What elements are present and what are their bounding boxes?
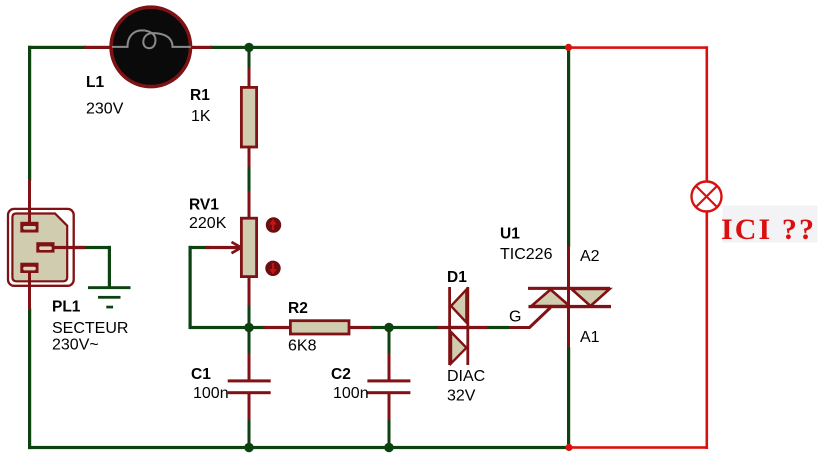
pot RV1 pin top [248,191,251,219]
diac D1 pin right [449,326,488,329]
svg-text:PL1: PL1 [52,299,81,316]
svg-text:G: G [509,309,521,326]
capacitor C1 pin bottom [248,392,251,420]
wire right vertical lower (from U1 A1) [567,347,570,449]
svg-text:100n: 100n [333,385,369,402]
wire wiper to node horizontal [189,326,250,329]
red lamp annotation [692,182,722,212]
node R2 right [384,323,393,332]
wire R2 right to node [371,326,390,329]
resistor R1 body [241,87,256,147]
wire RV1 bottom to node [248,305,251,328]
faint paste background behind ICI text [723,206,818,243]
resistor R1 pin top [248,68,251,87]
connector PL1 pin bottom [28,272,31,310]
svg-text:A2: A2 [580,248,600,265]
wire top node to R1 [248,47,251,69]
wire C1 to bottom rail [248,419,251,447]
resistor R1 pin bottom [248,147,251,167]
svg-text:L1: L1 [86,74,104,91]
connector PL1 slot 3 [20,263,38,273]
wire red annotation top [568,46,708,49]
wire node to C1 [248,327,251,355]
triac U1 pin A2 [567,246,570,307]
capacitor C2 pin bottom [388,392,391,420]
ground symbol [88,286,131,308]
connector PL1 body [8,209,74,286]
diac D1 [448,287,469,365]
node R1 top [244,43,253,52]
wire C2 to bottom rail [388,419,391,447]
lamp L1 pin right [190,46,212,49]
capacitor C2 pin top [388,353,391,381]
svg-text:U1: U1 [500,226,520,243]
svg-text:100n: 100n [193,385,229,402]
svg-text:R2: R2 [288,300,308,317]
svg-text:32V: 32V [447,388,476,405]
triac U1 gate pin [509,308,551,328]
node C1 bottom [244,443,253,452]
node bottom-right (red) [565,444,572,451]
wire red annotation right upper [706,46,709,182]
capacitor C2 plates [367,379,410,394]
node RV1 bottom [244,323,253,332]
wire top-left horizontal [28,46,86,49]
node top (red) [565,44,572,51]
svg-text:RV1: RV1 [189,197,219,214]
svg-text:1K: 1K [191,108,211,125]
lamp L1 pin left [84,46,112,49]
capacitor C1 plates [228,379,271,394]
svg-text:SECTEUR: SECTEUR [52,320,128,337]
wire right vertical upper (to U1 A2) [567,46,570,247]
svg-text:D1: D1 [447,269,467,286]
wire ground branch horizontal [69,246,111,249]
node C2 bottom [384,443,393,452]
pot RV1 up button [266,217,281,232]
svg-text:TIC226: TIC226 [500,246,553,263]
connector PL1 slot 1 [20,222,38,233]
wire bottom rail [28,446,571,449]
wire RV1 wiper horizontal [189,246,210,249]
diac D1 pin left [438,326,470,329]
wire node to R2 left [249,326,265,329]
resistor R2 pin right [349,326,372,329]
pot RV1 pin bottom [248,277,251,306]
svg-text:6K8: 6K8 [288,338,317,355]
connector PL1 slot 2 [36,242,54,252]
svg-text:220K: 220K [189,215,227,232]
wire ground branch vertical [108,246,111,287]
pot RV1 down button [265,261,280,276]
wire red annotation bottom [569,446,708,449]
triac U1 [528,287,611,308]
svg-text:DIAC: DIAC [447,368,485,385]
wire node to C2 [388,327,391,355]
triac U1 pin A1 [567,306,570,348]
lamp L1 [111,7,191,86]
connector PL1 pin top [28,179,31,223]
connector PL1 pin middle [53,246,85,249]
pot RV1 body [241,218,256,276]
svg-text:230V~: 230V~ [52,337,99,354]
wire node to D1 left [389,326,439,329]
svg-text:C2: C2 [331,366,351,383]
wire left vertical [28,46,31,181]
svg-text:230V: 230V [86,101,124,118]
wire PL1 bottom to bottom rail [28,308,31,449]
wire D1 right to gate [487,326,509,329]
wire R1 to RV1 [248,166,251,192]
pot RV1 wiper pin with arrowhead [206,242,241,253]
svg-text:ICI ??: ICI ?? [721,213,816,246]
resistor R2 body [290,321,349,334]
capacitor C1 pin top [248,353,251,381]
resistor R2 pin left [263,326,290,329]
svg-text:C1: C1 [191,366,211,383]
wire top horizontal lamp to node [210,46,570,49]
svg-text:A1: A1 [580,329,600,346]
wire red annotation right lower [706,211,709,449]
svg-text:R1: R1 [190,87,210,104]
wire RV1 wiper vertical [189,246,192,329]
